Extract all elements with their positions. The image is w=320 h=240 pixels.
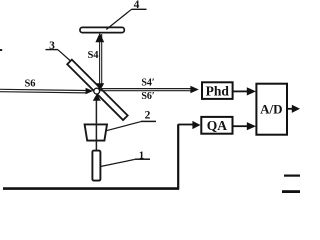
bottom right dash upper <box>284 175 300 177</box>
label 3 underline <box>46 49 59 51</box>
svg-text:S6′: S6′ <box>141 91 155 102</box>
bottom right dash lower <box>282 190 300 193</box>
laser 1 rectangle <box>92 151 100 181</box>
svg-text:S6: S6 <box>24 79 35 90</box>
svg-text:S4′: S4′ <box>141 78 155 89</box>
label 4 underline <box>132 8 147 10</box>
arrowhead up at mirror <box>95 33 104 43</box>
svg-text:S4: S4 <box>87 50 99 61</box>
label 1 leader line <box>101 159 135 166</box>
label 2 leader line <box>107 122 141 131</box>
box QA <box>201 117 232 134</box>
box A/D <box>256 84 287 135</box>
wire Phd to A/D with arrowhead <box>233 90 248 92</box>
svg-text:1: 1 <box>139 151 144 162</box>
label 4 leader line <box>106 9 131 29</box>
label 3 leader line <box>58 50 70 61</box>
label 1 underline <box>135 158 150 160</box>
arrowhead down at node <box>96 83 104 91</box>
wire: S6 input beam double line <box>0 89 86 93</box>
wire: S4 vertical double beam to mirror <box>100 34 102 84</box>
wire QA to A/D with arrowhead <box>233 125 248 127</box>
left edge small mark <box>0 49 2 51</box>
svg-text:A/D: A/D <box>260 101 282 116</box>
output arrow from A/D <box>287 108 293 110</box>
arrowhead into Phd <box>190 86 198 93</box>
wire: riser to QA <box>177 124 179 189</box>
box Phd <box>202 82 233 99</box>
lens 2 trapezoid <box>85 124 107 140</box>
wire: S4'/S6' output beam double line <box>100 89 191 91</box>
svg-text:2: 2 <box>145 110 151 122</box>
beam splitter 3 <box>67 60 127 120</box>
wire: bottom feedback line <box>3 187 179 190</box>
svg-text:Phd: Phd <box>206 83 230 98</box>
wire into QA with arrowhead <box>178 124 193 126</box>
wire: laser beam vertical line <box>95 100 97 151</box>
node circle at beam splitter centre <box>94 88 100 94</box>
svg-text:QA: QA <box>207 118 228 133</box>
mirror 4 <box>80 27 124 32</box>
arrowhead up into node <box>93 94 101 101</box>
label 2 underline <box>141 120 156 122</box>
arrowhead S6 into node <box>86 88 93 95</box>
